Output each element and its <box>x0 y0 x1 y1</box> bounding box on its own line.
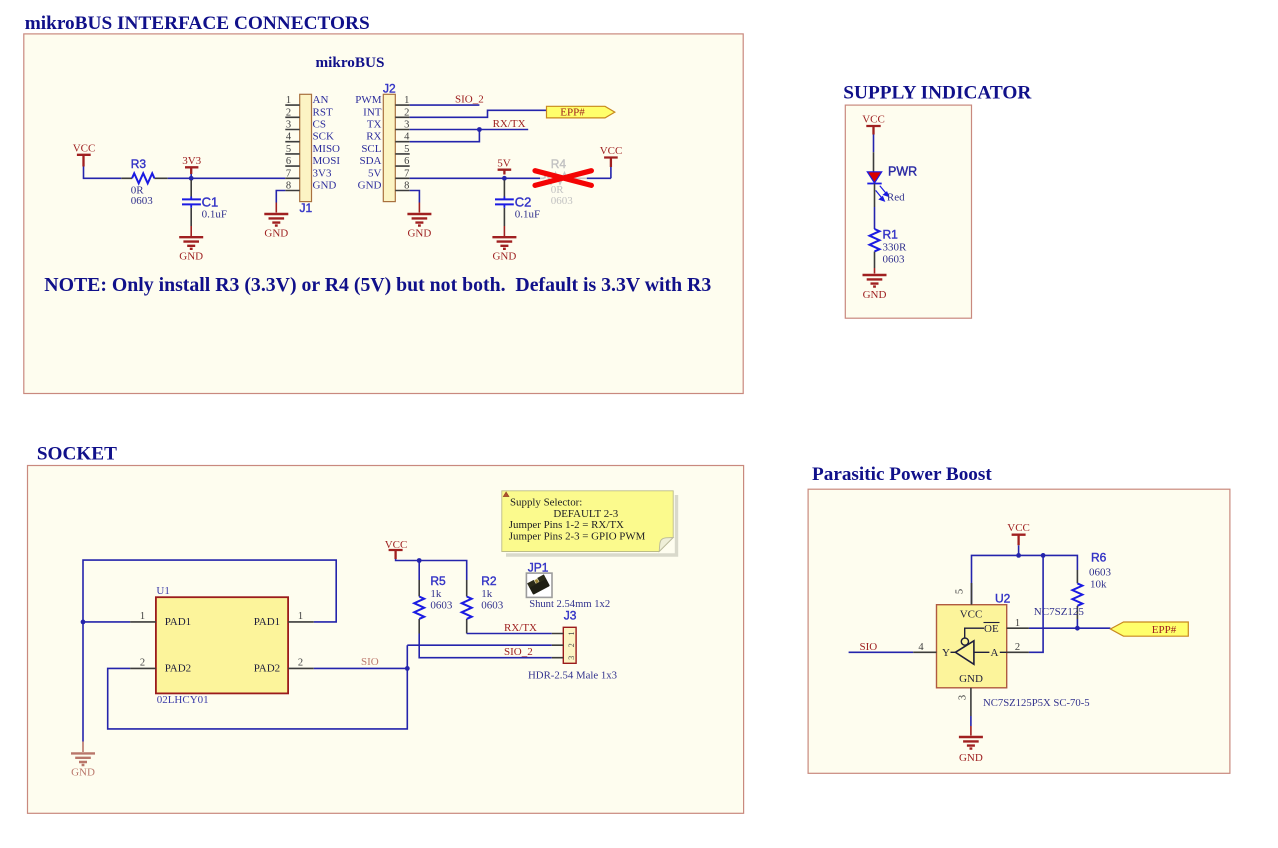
resistor R3 <box>121 157 167 207</box>
wire U1 loop top <box>83 560 336 622</box>
sheet symbol: SUPPLY INDICATOR region <box>845 105 971 318</box>
connector J3 <box>528 609 617 682</box>
wire J1 pin8 to ground <box>276 191 285 203</box>
svg-text:R2: R2 <box>481 574 497 588</box>
svg-text:PAD1: PAD1 <box>165 616 192 628</box>
svg-text:PWR: PWR <box>888 165 917 179</box>
svg-text:0603: 0603 <box>481 600 504 612</box>
svg-text:3V3: 3V3 <box>182 155 201 167</box>
node A junction <box>1041 553 1046 558</box>
ground at J1 <box>264 203 288 240</box>
svg-text:Parasitic Power Boost: Parasitic Power Boost <box>812 464 992 485</box>
svg-text:R6: R6 <box>1091 551 1107 565</box>
svg-text:Y: Y <box>942 647 950 659</box>
svg-text:NC7SZ125P5X SC-70-5: NC7SZ125P5X SC-70-5 <box>983 697 1090 709</box>
ground (socket, dimmed) <box>71 742 95 779</box>
svg-text:GND: GND <box>358 180 382 192</box>
svg-text:3: 3 <box>286 120 291 131</box>
wire VCC right drop <box>610 167 612 178</box>
svg-text:3V3: 3V3 <box>313 167 332 179</box>
jumper JP1 icon <box>526 561 610 611</box>
svg-text:3: 3 <box>567 656 576 660</box>
wire J2 pin4 <box>410 130 480 142</box>
wire A vertical <box>1029 555 1043 652</box>
svg-text:4: 4 <box>404 132 410 143</box>
svg-text:SCK: SCK <box>313 131 334 143</box>
svg-text:MOSI: MOSI <box>313 155 341 167</box>
svg-text:GND: GND <box>71 767 95 779</box>
svg-text:5: 5 <box>404 144 409 155</box>
svg-text:J1: J1 <box>300 201 313 215</box>
svg-text:VCC: VCC <box>862 114 885 126</box>
svg-text:SIO: SIO <box>860 641 878 653</box>
svg-text:CS: CS <box>313 119 326 131</box>
svg-text:HDR-2.54 Male 1x3: HDR-2.54 Male 1x3 <box>528 670 617 682</box>
svg-text:C2: C2 <box>515 194 532 209</box>
svg-text:6: 6 <box>404 156 409 167</box>
ground at R1 <box>863 268 887 301</box>
svg-text:0603: 0603 <box>430 600 453 612</box>
wire J2 pin1 SIO_2 <box>410 104 480 106</box>
wire LED to R1 <box>874 184 876 208</box>
svg-text:GND: GND <box>863 289 887 301</box>
sheet symbol: SOCKET region <box>28 466 744 814</box>
svg-text:VCC: VCC <box>1007 522 1030 534</box>
wire R6 to EPP row <box>1076 619 1078 628</box>
svg-text:VCC: VCC <box>960 609 983 621</box>
IC U1 <box>130 585 314 706</box>
node left junction <box>81 620 86 625</box>
svg-text:EPP#: EPP# <box>1152 624 1177 636</box>
svg-text:J3: J3 <box>564 609 577 623</box>
wire VCC to LED <box>873 135 875 153</box>
svg-text:7: 7 <box>286 168 291 179</box>
svg-text:5V: 5V <box>497 158 511 170</box>
svg-text:1: 1 <box>1015 618 1020 629</box>
node SIO junction <box>405 666 410 671</box>
power port VCC <box>1012 535 1026 546</box>
svg-text:GND: GND <box>179 251 203 263</box>
svg-text:SDA: SDA <box>359 155 381 167</box>
svg-text:3: 3 <box>404 120 409 131</box>
svg-text:02LHCY01: 02LHCY01 <box>157 694 209 706</box>
node R5 junction <box>417 558 422 563</box>
resistor R5 <box>414 574 453 634</box>
svg-text:GND: GND <box>313 180 337 192</box>
svg-text:1k: 1k <box>481 588 493 600</box>
svg-text:PAD1: PAD1 <box>254 616 281 628</box>
svg-text:mikroBUS INTERFACE CONNECTORS: mikroBUS INTERFACE CONNECTORS <box>25 13 370 34</box>
svg-text:PWM: PWM <box>355 94 382 106</box>
svg-text:NOTE: Only install R3 (3.3V) o: NOTE: Only install R3 (3.3V) or R4 (5V) … <box>44 274 711 296</box>
svg-text:0603: 0603 <box>1089 567 1112 579</box>
svg-text:U1: U1 <box>156 585 169 597</box>
svg-text:Supply Selector:: Supply Selector: <box>510 497 582 509</box>
wire R3 to J1 pin7 <box>168 177 286 179</box>
svg-text:1: 1 <box>286 95 291 106</box>
wire J2 pin8 to ground <box>410 191 420 203</box>
svg-text:PAD2: PAD2 <box>165 663 192 675</box>
svg-text:INT: INT <box>363 106 382 118</box>
svg-text:1: 1 <box>404 95 409 106</box>
svg-text:NC7SZ125: NC7SZ125 <box>1034 606 1085 618</box>
node junction pin3/pin4 <box>477 127 482 132</box>
ground at J2 <box>407 203 431 240</box>
power port VCC <box>866 126 880 135</box>
wire R5 drop <box>418 561 420 581</box>
svg-text:0.1uF: 0.1uF <box>515 209 540 221</box>
node 3V3 junction <box>189 176 194 181</box>
svg-text:0603: 0603 <box>883 254 906 266</box>
svg-text:GND: GND <box>264 228 288 240</box>
capacitor C2 <box>495 180 540 226</box>
svg-text:SOCKET: SOCKET <box>37 444 117 465</box>
svg-text:VCC: VCC <box>600 145 623 157</box>
wire SIO_2 row <box>419 634 552 658</box>
resistor R2 <box>462 574 504 634</box>
svg-text:R1: R1 <box>883 228 899 242</box>
svg-text:DEFAULT 2-3: DEFAULT 2-3 <box>553 508 618 520</box>
svg-text:OE: OE <box>984 623 999 635</box>
svg-text:MISO: MISO <box>313 143 341 155</box>
svg-text:1: 1 <box>567 632 576 636</box>
svg-text:2: 2 <box>567 643 576 647</box>
svg-text:EPP#: EPP# <box>560 107 585 119</box>
svg-text:2: 2 <box>404 107 409 118</box>
svg-text:2: 2 <box>298 657 303 668</box>
sheet symbol: mikroBUS INTERFACE CONNECTORS region <box>24 34 743 394</box>
node R6 junction <box>1075 626 1080 631</box>
IC U2 <box>913 583 1029 716</box>
svg-text:0603: 0603 <box>131 195 154 207</box>
node VCC junction <box>1016 553 1021 558</box>
port EPP# <box>547 106 615 118</box>
LED PWR <box>867 165 917 204</box>
svg-text:4: 4 <box>286 132 292 143</box>
svg-text:GND: GND <box>959 752 983 764</box>
resistor R6 <box>1072 551 1111 620</box>
wire U2 pin3 to ground <box>970 716 972 726</box>
wire SIO to pin4 <box>849 651 914 653</box>
svg-text:TX: TX <box>367 119 382 131</box>
svg-text:R5: R5 <box>430 574 446 588</box>
svg-text:RX/TX: RX/TX <box>493 118 526 130</box>
svg-text:SIO_2: SIO_2 <box>504 646 533 658</box>
ground at C1 <box>179 226 203 263</box>
svg-text:1: 1 <box>298 611 303 622</box>
svg-text:Jumper Pins 1-2 = RX/TX: Jumper Pins 1-2 = RX/TX <box>509 519 624 531</box>
svg-text:330R: 330R <box>883 242 908 254</box>
svg-text:RX/TX: RX/TX <box>504 622 537 634</box>
wire J2 pin3 RX/TX <box>410 129 529 131</box>
svg-text:VCC: VCC <box>73 143 96 155</box>
resistor R4 (not installed, greyed) <box>540 157 587 207</box>
wire J3 pin2 row <box>407 644 552 646</box>
svg-text:2: 2 <box>1015 642 1020 653</box>
wire J2 pin2 to EPP# <box>410 110 547 117</box>
power port VCC (right) <box>604 158 618 168</box>
red X over R4 <box>535 171 591 186</box>
svg-text:8: 8 <box>286 181 291 192</box>
power port VCC (socket) <box>389 550 403 559</box>
wire node to ground <box>82 622 84 742</box>
wire VCC rail to resistors <box>396 559 467 580</box>
capacitor C1 <box>182 180 227 226</box>
power port 5V <box>498 170 512 175</box>
svg-text:2: 2 <box>140 657 145 668</box>
wire pin1 to EPP# <box>1029 627 1111 629</box>
svg-text:5: 5 <box>286 144 291 155</box>
wire top rail <box>972 555 1078 604</box>
svg-text:6: 6 <box>286 156 291 167</box>
svg-text:5: 5 <box>955 589 966 594</box>
svg-text:1: 1 <box>140 611 145 622</box>
svg-text:1k: 1k <box>430 588 442 600</box>
svg-text:0.1uF: 0.1uF <box>202 209 227 221</box>
connector J2 <box>355 82 410 202</box>
svg-text:GND: GND <box>407 228 431 240</box>
wire J2 pin7 5V rail <box>410 177 611 179</box>
svg-text:2: 2 <box>286 107 291 118</box>
wire RX/TX row <box>467 633 552 635</box>
svg-text:R4: R4 <box>551 157 567 171</box>
svg-text:7: 7 <box>404 168 409 179</box>
wire VCC drop <box>1018 545 1020 555</box>
svg-text:U2: U2 <box>995 592 1011 606</box>
svg-text:3: 3 <box>958 695 969 700</box>
svg-text:SIO_2: SIO_2 <box>455 94 484 106</box>
wire U1 pin2 bottom path <box>108 645 408 729</box>
svg-text:10k: 10k <box>1090 579 1107 591</box>
svg-text:AN: AN <box>313 94 329 106</box>
svg-text:5V: 5V <box>368 167 382 179</box>
svg-text:J2: J2 <box>383 82 396 96</box>
resistor R1 <box>870 228 908 269</box>
power port VCC (left) <box>77 155 91 167</box>
port EPP# (left pointing) <box>1110 622 1188 636</box>
svg-text:RX: RX <box>366 131 381 143</box>
svg-text:PAD2: PAD2 <box>254 663 281 675</box>
svg-text:0603: 0603 <box>551 195 574 207</box>
svg-text:SIO: SIO <box>361 656 379 668</box>
svg-text:GND: GND <box>492 251 516 263</box>
svg-text:SCL: SCL <box>361 143 381 155</box>
sheet symbol: Parasitic Power Boost region <box>808 489 1230 773</box>
wire VCC to R3 <box>84 167 122 179</box>
svg-text:A: A <box>991 647 999 659</box>
power port 3V3 <box>185 167 198 174</box>
note: supply selector <box>502 491 677 555</box>
svg-text:Red: Red <box>887 192 905 204</box>
svg-text:8: 8 <box>404 181 409 192</box>
svg-text:SUPPLY INDICATOR: SUPPLY INDICATOR <box>843 83 1032 104</box>
svg-text:mikroBUS: mikroBUS <box>316 54 385 71</box>
node 5V junction <box>502 176 507 181</box>
svg-text:VCC: VCC <box>385 539 408 551</box>
svg-text:C1: C1 <box>202 194 219 209</box>
svg-text:4: 4 <box>918 642 924 653</box>
svg-text:R3: R3 <box>131 157 147 171</box>
svg-text:RST: RST <box>313 106 333 118</box>
svg-text:Jumper Pins 2-3 = GPIO PWM: Jumper Pins 2-3 = GPIO PWM <box>509 531 646 543</box>
svg-text:GND: GND <box>959 673 983 685</box>
ground at C2 <box>492 226 516 263</box>
wire left node to U1 pin1 <box>83 621 130 623</box>
connector J1 <box>285 94 340 215</box>
ground at U2 <box>959 726 983 764</box>
wire U1 right pin2 SIO <box>314 667 408 669</box>
